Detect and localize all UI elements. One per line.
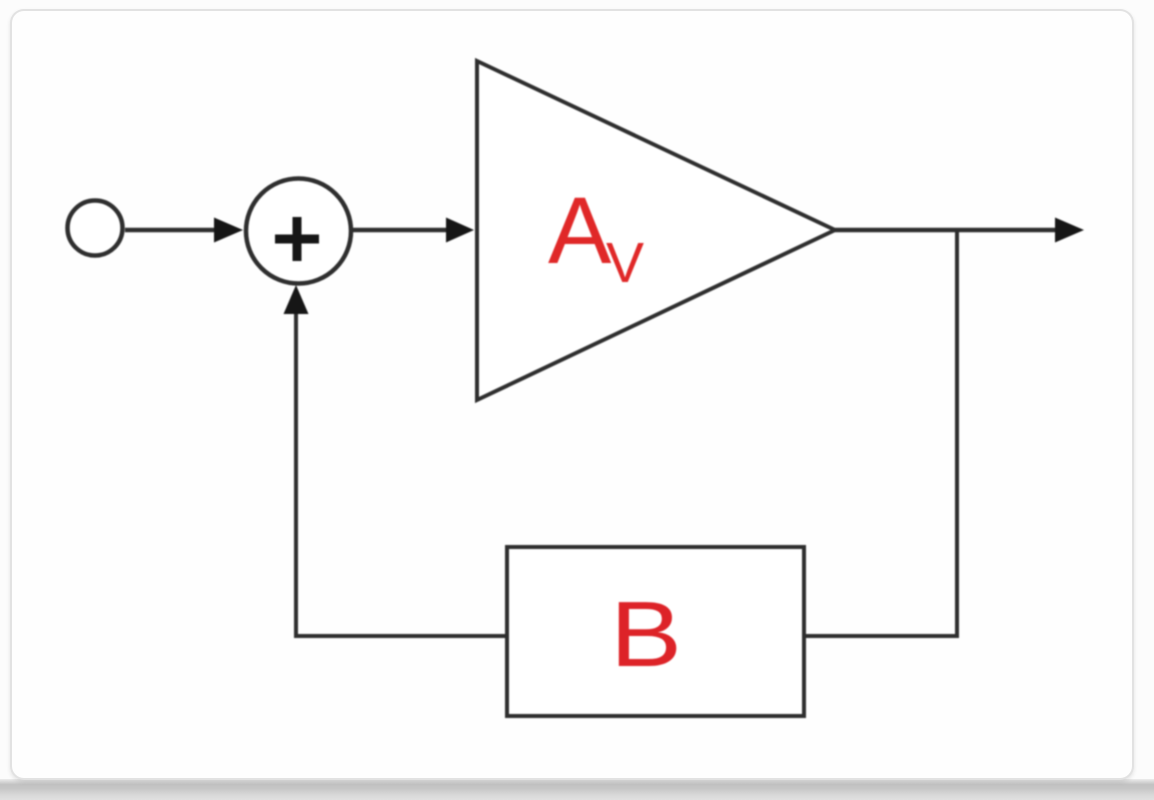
- wire summer to amplifier: [353, 228, 448, 233]
- output arrowhead: [1055, 218, 1084, 243]
- wire input to summer: [125, 228, 218, 233]
- input terminal circle: [68, 201, 123, 256]
- svg-text:B: B: [610, 583, 682, 686]
- arrowhead into summer bottom: [284, 285, 309, 314]
- svg-text:V: V: [606, 231, 644, 295]
- op-amp triangle A_V: [477, 61, 835, 400]
- feedback block B: [507, 547, 804, 716]
- summing junction U1: [246, 179, 351, 284]
- wire tap to B box: [804, 634, 959, 638]
- output wire: [835, 228, 1056, 233]
- arrowhead into amplifier: [446, 218, 474, 243]
- plus sign in summer: [275, 217, 319, 261]
- wire left riser up to summer: [294, 310, 298, 638]
- wire B box to left riser: [294, 634, 507, 638]
- node: feedback tap junction: [955, 228, 959, 638]
- page bottom shadow band: [0, 779, 1154, 800]
- arrowhead into summer: [214, 218, 243, 243]
- svg-text:A: A: [548, 178, 612, 284]
